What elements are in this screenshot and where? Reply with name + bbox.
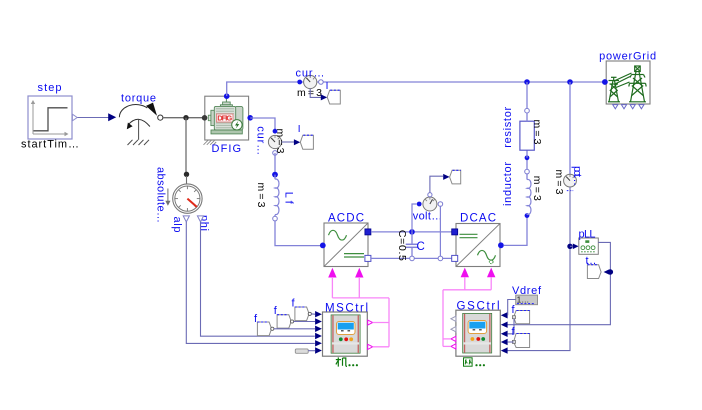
svg-text:cur…: cur… <box>255 126 267 155</box>
wire junction to t tag <box>604 269 610 275</box>
resistor (m=3) <box>502 82 543 158</box>
node t tag junction <box>608 269 613 274</box>
current sensor cur1 m=3 <box>296 68 325 99</box>
current sensor cur2 m=3 <box>255 126 287 155</box>
wire cur1 output to tag <box>310 89 323 98</box>
wire const to MSCtrl <box>308 350 315 352</box>
powerGrid ground triangles <box>613 105 644 109</box>
wire inductor to resistor <box>526 160 528 169</box>
wire DC bus plus <box>371 231 452 233</box>
svg-text:pot…: pot… <box>571 166 583 186</box>
wire top AC bus <box>227 82 605 96</box>
controller GSCtrl <box>456 301 500 357</box>
node bus junction pot branch <box>567 79 573 85</box>
magenta gate wires GSCtrl to DCAC <box>443 277 491 346</box>
svg-text:powerGrid: powerGrid <box>599 50 656 62</box>
inductor (m=3) grid filter <box>502 162 543 215</box>
torque source torque <box>119 93 163 140</box>
signal tag f3 (MSCtrl) <box>292 298 312 321</box>
wire alp to MSCtrl <box>186 222 314 344</box>
wire cur2 output to tag <box>282 141 296 143</box>
wire DFIG rotor to cur2 <box>250 118 275 131</box>
svg-text:DFIG: DFIG <box>212 143 242 155</box>
GSCtrl output triangle gray 2 <box>451 327 456 332</box>
svg-text:startTim…: startTim… <box>21 139 79 151</box>
ACDC gate arrow 1 <box>328 268 336 278</box>
wire Vdref to GSCtrl <box>508 300 516 316</box>
wire voltmeter plus to DC bus <box>412 204 417 232</box>
svg-text:I: I <box>298 124 301 135</box>
wire tag f2 to MSCtrl <box>294 321 316 323</box>
sensor output triangle alp <box>183 216 189 222</box>
grid powerGrid <box>599 50 656 104</box>
wire Lf to ACDC <box>275 221 320 246</box>
svg-text:cur…: cur… <box>296 68 325 80</box>
label Chinese (MSCtrl) <box>336 357 347 366</box>
svg-text:m=3: m=3 <box>255 183 267 208</box>
wire tag f1 to MSCtrl <box>274 328 315 330</box>
ACDC DC minus pin <box>365 255 371 261</box>
potential sensor pot m=3 <box>553 166 583 195</box>
wire tag f3 to MSCtrl <box>311 313 315 315</box>
svg-text:absolute…: absolute… <box>154 167 166 223</box>
node bus junction resistor branch <box>524 79 530 85</box>
GSCtrl output triangle magenta 2 <box>451 344 456 349</box>
node sensor flange <box>184 172 189 177</box>
svg-text:pLL: pLL <box>579 228 596 240</box>
label Chinese (GSCtrl) <box>464 358 473 366</box>
DCAC AC pin <box>498 242 504 248</box>
MSCtrl input arrows <box>315 311 322 354</box>
svg-text:MSCtrl: MSCtrl <box>325 302 368 314</box>
node DC plus junction <box>409 229 415 235</box>
signal tag f2 (MSCtrl) <box>274 305 294 328</box>
signal tag f2 (GSCtrl) <box>512 326 530 348</box>
GSCtrl output triangle magenta 1 <box>451 336 456 341</box>
svg-text:m=3: m=3 <box>553 170 565 195</box>
wire shaft junction down to angle sensor <box>185 118 187 173</box>
wire bus to pot sensor <box>569 82 571 174</box>
svg-text:GSCtrl: GSCtrl <box>457 301 500 313</box>
wire pot output down to GSCtrl <box>507 187 570 351</box>
wire tag f2 to GSCtrl <box>508 341 514 343</box>
wire torque to DFIG shaft <box>163 117 204 119</box>
svg-text:step: step <box>38 82 62 94</box>
ACDC AC pin <box>320 243 326 249</box>
signal tag (vdc) <box>450 170 461 184</box>
converter DCAC <box>456 212 500 266</box>
const block (speed ref) <box>295 349 308 353</box>
svg-text:m=3: m=3 <box>531 176 543 201</box>
controller MSCtrl <box>323 302 369 356</box>
rotation sensor absolute <box>154 167 210 233</box>
node inductor bottom pin <box>525 213 530 218</box>
node shaft junction <box>183 115 188 120</box>
signal tag f1 (MSCtrl) <box>254 313 274 336</box>
svg-text:alp: alp <box>171 217 183 233</box>
wire DCAC to filter branch <box>504 218 527 246</box>
svg-text:I: I <box>326 81 329 92</box>
inductor Lf m=3 <box>255 175 295 221</box>
wire pLL output to t tag and GSCtrl <box>507 242 610 324</box>
converter ACDC <box>324 212 368 266</box>
node resistor bottom pin <box>525 155 530 160</box>
wire tag f1 to GSCtrl <box>508 319 514 334</box>
svg-text:inductor: inductor <box>502 162 514 206</box>
MSCtrl output triangle 2 <box>368 344 373 349</box>
GSCtrl input arrows <box>501 312 508 354</box>
wire voltmeter minus to DC bus <box>439 206 441 256</box>
DCAC gate arrow 1 <box>461 268 469 278</box>
MSCtrl output triangle 1 <box>368 320 373 325</box>
DCAC gate arrow 2 <box>487 268 495 278</box>
voltmeter volt <box>413 193 443 223</box>
svg-text:torque: torque <box>121 93 156 105</box>
wire junction to pLL <box>570 245 575 247</box>
svg-text:m=3: m=3 <box>274 129 286 154</box>
PLL block pLL <box>579 228 599 254</box>
ACDC DC plus pin <box>365 229 371 235</box>
signal tag I (cur2) <box>298 124 314 149</box>
svg-text:DFIG: DFIG <box>217 114 232 123</box>
svg-text:Vdref: Vdref <box>512 285 542 297</box>
signal tag I (cur1) <box>326 81 341 104</box>
svg-text:m=3: m=3 <box>531 120 543 145</box>
node Lf top pin <box>272 172 278 178</box>
svg-text:t…: t… <box>586 255 597 267</box>
svg-text:DCAC: DCAC <box>460 212 496 224</box>
svg-text:C=0.5: C=0.5 <box>396 230 408 261</box>
wire step to torque <box>78 113 117 121</box>
DFIG machine DFIG <box>204 96 249 155</box>
DFIG left shaft pin <box>202 115 208 121</box>
DFIG right rotor pin <box>247 115 253 121</box>
sensor output triangle phi <box>197 216 203 222</box>
DCAC DC minus pin <box>452 255 458 261</box>
svg-text:ACDC: ACDC <box>328 212 364 224</box>
signal tag f1 (GSCtrl) <box>512 304 530 324</box>
svg-text:C: C <box>417 241 425 253</box>
powerGrid pin <box>602 79 608 85</box>
node pLL input junction <box>567 244 572 249</box>
step source block step <box>21 82 79 151</box>
svg-text:resistor: resistor <box>502 106 514 147</box>
ACDC gate arrow 2 <box>355 268 363 278</box>
wire voltmeter signal to tag <box>430 176 443 192</box>
DFIG top stator pin <box>224 93 230 99</box>
svg-text:volt…: volt… <box>413 210 443 222</box>
DCAC DC plus pin <box>452 229 458 235</box>
wire DC bus minus <box>371 257 452 259</box>
const block Vdref <box>512 285 542 305</box>
capacitor C C=0.5 <box>396 230 425 261</box>
ground (torque support hatch) <box>128 140 150 145</box>
wire cur2 to Lf <box>274 153 276 175</box>
GSCtrl output triangle gray 1 <box>451 316 456 321</box>
magenta gate wires MSCtrl to ACDC <box>332 277 389 347</box>
signal tag t <box>586 255 602 279</box>
wire phi to MSCtrl <box>201 222 315 336</box>
